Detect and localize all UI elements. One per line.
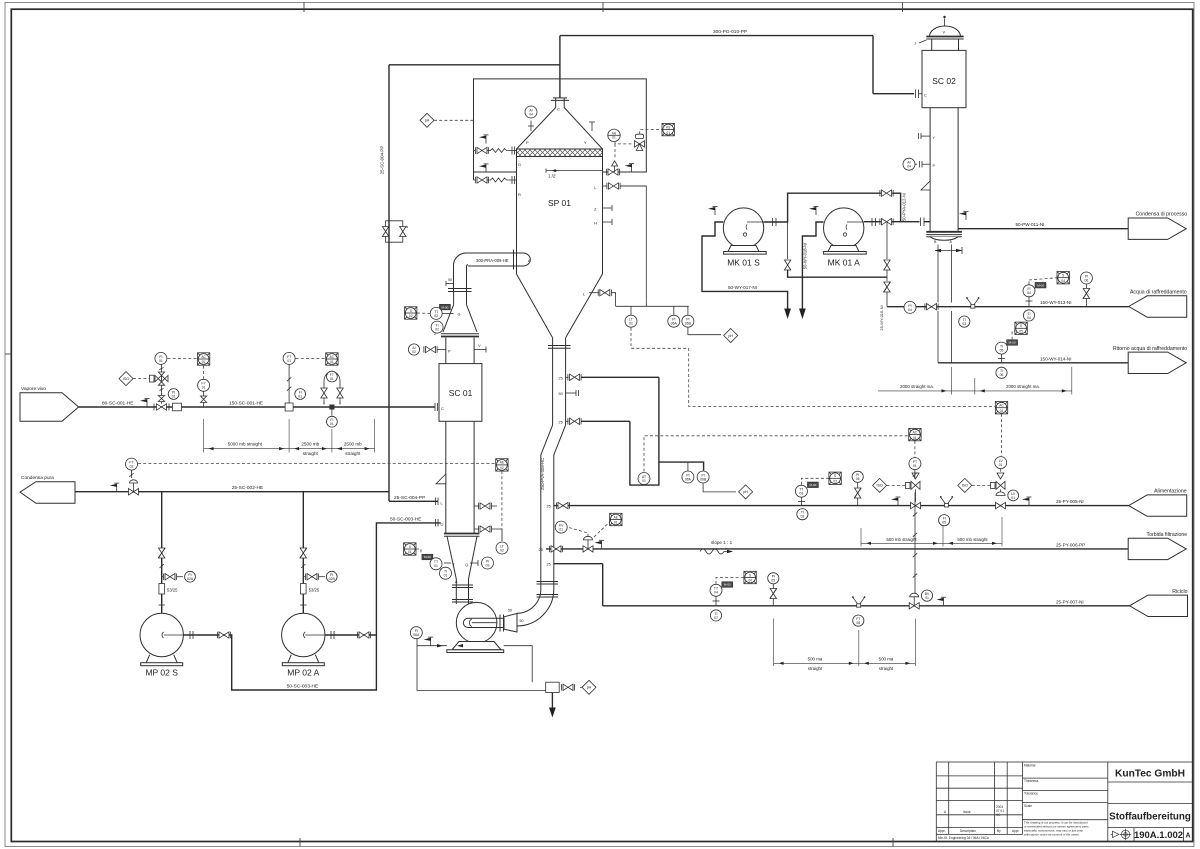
SC01 column lower shell [445,421,447,533]
SC01 flange [441,334,479,337]
svg-text:M-00: M-00 [1037,283,1044,287]
pump discharge tube [463,618,504,627]
svg-text:Condensa pura: Condensa pura [21,475,54,481]
pH diamond drain [582,680,596,694]
drain pot [546,682,560,692]
vent SC02 outlet [959,211,969,220]
svg-text:500 ma: 500 ma [808,657,823,662]
pump shaft mark [469,619,497,627]
vessel SP01 bottom cone [517,274,553,338]
svg-text:Appr.: Appr. [1012,829,1020,833]
svg-text:Vapore vivo: Vapore vivo [21,386,46,392]
svg-text:P: P [526,140,529,145]
svg-text:KS: KS [666,125,670,129]
svg-text:2000 straight ma.: 2000 straight ma. [1006,384,1040,389]
control valve riciclo [909,593,919,609]
inlet flag Vapore vivo [20,393,79,421]
svg-text:01: 01 [913,464,917,468]
instrument LT 01 [625,315,637,327]
svg-text:50-SC-003-HE: 50-SC-003-HE [390,516,421,522]
instrument AT 01 [638,473,650,485]
elbow pipe to SC01 riser [454,253,469,292]
SP01 right side level lines [620,186,646,300]
svg-text:MP 02 A: MP 02 A [287,668,319,678]
svg-text:SC 02: SC 02 [932,76,956,86]
svg-text:S: S [1062,274,1064,278]
valve L1 right [478,503,491,509]
svg-text:P: P [448,349,451,354]
SC01 cone nozzles T Q [444,562,451,564]
SP01 G nozzle line with flex [485,149,517,153]
svg-text:53/25: 53/25 [309,588,320,593]
branch riciclo takeoff [554,563,603,565]
instrument FY 01 [198,379,210,391]
svg-text:25: 25 [547,505,551,509]
dimension set vapore [204,419,375,453]
SC02 top flange [926,37,963,40]
svg-text:50: 50 [520,619,524,623]
svg-text:V: V [478,343,481,348]
dimension 2000 straight [878,367,1072,395]
svg-text:05: 05 [771,579,775,583]
svg-text:02: 02 [434,314,438,318]
inlet flag Acqua di raffreddamento [1129,296,1187,317]
svg-text:06B: 06B [700,477,707,481]
valve cone L [598,290,611,296]
instrument TI 03 [797,509,808,520]
panel instrument AE 01 [610,513,622,525]
outlet flag Ritorno acqua di raffreddamento [1128,352,1186,373]
valve crossover a [784,260,790,270]
svg-text:AC: AC [201,355,206,359]
svg-text:01: 01 [629,322,633,326]
valve branch 25 lower [568,418,581,424]
discharge expander [504,614,517,633]
svg-text:01: 01 [172,394,176,398]
svg-text:04: 04 [748,579,752,583]
signal dashed to AC01 right [994,406,996,408]
SP01 nozzle Y tick [591,122,593,131]
vent X line [625,163,635,172]
svg-text:straight: straight [345,451,361,456]
svg-text:300-PRA-009-HE: 300-PRA-009-HE [476,258,509,263]
svg-text:M-00: M-00 [1009,341,1016,345]
panel instrument AC 01 [197,353,209,365]
svg-text:pH: pH [743,490,748,494]
instrument BV 01 [921,590,932,601]
svg-text:2500 mb: 2500 mb [344,441,362,446]
panel instrument AC 01 [995,402,1007,414]
signal slashes [287,377,291,390]
SC02 Y nozzle [921,135,930,137]
svg-text:25-WY-015-NI: 25-WY-015-NI [879,305,884,330]
svg-text:straight: straight [303,451,319,456]
pH diamond lower [739,485,753,499]
SP01 L nozzle valve right [603,185,608,187]
svg-text:5000 mb straight: 5000 mb straight [228,441,263,446]
instrument FT 02 [126,458,138,470]
svg-text:01: 01 [1000,409,1004,413]
svg-text:Y: Y [584,140,587,145]
inlet flag Riciclo [1130,595,1188,616]
svg-text:02: 02 [435,328,439,332]
svg-text:S: S [749,573,751,577]
svg-text:Tolerance: Tolerance [1024,792,1038,796]
svg-text:150-WY-014-NI: 150-WY-014-NI [1040,356,1072,361]
svg-text:01: 01 [444,574,448,578]
50 stub on riser [446,283,454,285]
instrument KV 01 [555,521,567,533]
valve L [607,183,620,189]
svg-text:01: 01 [666,131,670,135]
panel instrument S 01 [404,543,416,555]
instrument PI 06A [682,471,694,483]
svg-text:straight: straight [808,666,823,671]
valve MP02A discharge [357,632,370,638]
svg-text:01: 01 [330,360,334,364]
svg-text:03: 03 [962,322,966,326]
panel instrument S 05 [1015,322,1027,334]
SC01 neck [445,338,447,364]
valve MK01S discharge header [880,190,893,196]
panel instrument AC 01 [326,353,338,365]
svg-text:AE: AE [614,515,618,519]
package box SP01 [474,79,647,180]
SC02 neck [931,39,933,50]
SP01 top right solenoid valve cluster [608,129,620,141]
check valve acqua branch [1083,289,1090,299]
svg-text:Riciclo: Riciclo [1172,589,1187,595]
valve tap A [305,574,318,580]
blower MK 01 S [723,208,766,254]
instrument AI 04 SP01 [525,106,537,118]
signal dashed LT01 chain [631,328,995,407]
SC01 bottom flange [444,534,480,537]
svg-text:01: 01 [559,528,563,532]
SC02 dished bottom [930,237,958,241]
instrument PI 06 [852,471,863,482]
valve MK01A discharge [880,219,893,225]
instrument LV 01 [995,457,1007,469]
valve torbida takeoff [549,546,562,552]
svg-text:01: 01 [913,436,917,440]
svg-text:25-PY-006-PP: 25-PY-006-PP [1056,542,1085,547]
svg-text:04: 04 [1027,316,1031,320]
svg-text:O: O [441,523,444,527]
relief valve on X line [612,161,618,166]
vent left of PT01 [891,497,901,506]
svg-text:Issue: Issue [963,810,971,814]
M-00 box [422,554,433,560]
instrument PI 06 [1080,272,1092,284]
pH probe diamond SP01 [420,113,434,127]
svg-text:05: 05 [1019,330,1023,334]
leg instrument taps [162,576,163,578]
drain arrow down [551,693,553,710]
check valve to WY015 [884,282,891,292]
level instrument bracket [616,305,689,307]
svg-text:02A: 02A [187,577,194,581]
svg-text:Condensa di processo: Condensa di processo [1136,212,1188,218]
panel instrument S 03 [829,472,841,484]
dimension 500 alimentazione [861,517,1002,547]
svg-text:MP 02 S: MP 02 S [145,668,178,678]
flange on riser [448,289,472,292]
silencer [173,403,182,411]
svg-text:Min.St. Engineering 04 / 06A /: Min.St. Engineering 04 / 06A / 06Ca [938,836,989,840]
panel instrument AE 02 [496,459,508,471]
svg-text:01: 01 [287,359,291,363]
svg-text:04: 04 [908,308,912,312]
svg-text:S: S [409,545,411,549]
instrument TI 06 [996,367,1007,378]
svg-text:25: 25 [559,420,563,424]
SC02 lower tube [929,108,931,232]
pH diamond upper [724,329,738,343]
SC02 bottom flange [926,232,962,237]
SP01 inlet nozzle A capsule 300-PRA-009-HE [466,253,530,266]
svg-text:C: C [557,107,560,112]
svg-text:pH: pH [587,686,592,690]
svg-text:KC: KC [996,813,1001,817]
svg-text:G: G [458,313,461,317]
svg-text:02B: 02B [329,577,336,581]
check valve MP02A leg [300,548,307,558]
svg-text:S: S [410,309,412,313]
vent G line [479,135,489,144]
svg-text:AC: AC [999,404,1004,408]
instrument LT 02 [496,542,508,554]
svg-text:01: 01 [298,394,302,398]
svg-text:06: 06 [1000,373,1004,377]
vessel SP01 top cone and neck [517,98,603,149]
svg-text:straight: straight [879,666,894,671]
sample cooler loop lines [659,377,704,470]
svg-text:Material: Material [1024,764,1036,768]
svg-text:M-00: M-00 [809,483,816,487]
valve bypass b [337,388,343,398]
svg-text:06: 06 [1085,278,1089,282]
SC01 bottom pipe to pump [455,579,457,604]
SC02 C nozzle [916,90,919,99]
svg-text:MK 01 S: MK 01 S [727,258,760,268]
bypass valve b [400,227,406,237]
svg-text:Thickness: Thickness [1024,779,1039,783]
svg-text:06B: 06B [685,322,692,326]
valve crossover b [884,260,890,270]
instrument PI 06B [682,315,694,327]
pump MP 02 S [140,613,183,665]
pipe SP01 vent header 300-PG-010-PP [559,36,561,98]
branch 25 upper [566,376,569,378]
condensa control valve [129,480,139,495]
svg-text:pH: pH [728,334,733,338]
svg-text:01: 01 [330,422,334,426]
signal dashed AT01 chain [644,436,909,472]
valve bypass a [321,388,327,398]
ISO diamond PT01 [873,478,887,492]
instrument FT 08 [853,615,864,626]
M-00 box [439,304,450,310]
instrument TI 05 [996,342,1008,354]
svg-text:Ritorno acqua di raffreddament: Ritorno acqua di raffreddamento [1113,346,1187,352]
svg-text:01: 01 [202,386,206,390]
SC01 C nozzle flange [435,403,438,411]
svg-text:01: 01 [612,136,616,140]
pipe 150-WY-013-NI acqua di raffreddamento [887,306,1128,308]
svg-text:01: 01 [614,521,618,525]
dimension 500 riciclo [774,619,916,667]
orifice flange FT01 [285,403,293,411]
FI04 orifice station [1028,297,1030,307]
inlet flag Alimentazione [1129,495,1187,516]
svg-text:25: 25 [539,548,543,552]
pipe Vapore vivo 80-SC-001-HE [79,406,435,408]
svg-text:300-PG-010-PP: 300-PG-010-PP [713,29,747,35]
valve branch 25 upper [568,374,581,380]
instrument AI 04 [903,158,915,170]
svg-text:50: 50 [448,278,452,282]
valve acqua [925,304,938,310]
SC01 neck nozzles P V [438,349,446,351]
svg-text:08: 08 [856,621,860,625]
svg-text:Description: Description [960,829,976,833]
SP01 Z H stubs [603,207,613,209]
vent condensa line [110,483,120,492]
svg-text:05: 05 [942,521,946,525]
svg-text:02: 02 [500,466,504,470]
svg-text:z: z [915,42,917,46]
svg-text:53/25: 53/25 [167,588,178,593]
panel instrument AC 01 [909,428,921,440]
flow bypass loop [324,372,340,405]
svg-text:01: 01 [434,564,438,568]
instrument TT 02 [430,307,442,319]
svg-text:AC: AC [913,430,918,434]
svg-text:L: L [441,502,443,506]
column SC02 dome head [930,26,961,37]
svg-text:Appr.: Appr. [938,829,946,833]
svg-text:ISO: ISO [962,484,968,488]
svg-text:500 ma: 500 ma [879,657,894,662]
MK crossover valves [787,222,789,259]
instrument TI 03 [959,316,970,327]
svg-text:C: C [441,406,444,411]
discharge fittings [190,631,193,639]
signal slashes [160,564,164,568]
svg-text:a: a [406,225,408,229]
pH line from bracket [688,328,721,335]
three way valve with actuator [635,134,645,150]
signal slashes [913,512,917,577]
svg-text:50-PYA-012-NI: 50-PYA-012-NI [902,193,907,221]
svg-text:02: 02 [409,314,413,318]
SP01 spray nozzle P with instrument [530,121,532,132]
svg-text:R: R [518,192,521,197]
Y strainer alimentazione [940,496,953,507]
svg-text:01: 01 [408,550,412,554]
svg-text:01: 01 [642,479,646,483]
vent MK01S [708,206,718,215]
vent torbida [595,540,605,549]
SC02 z nozzle [919,40,926,43]
signal slashes [301,564,305,568]
self actuated reducing valve [150,365,169,402]
bypass valve a [382,227,388,237]
svg-text:500 mb straight: 500 mb straight [886,537,917,542]
signal slashes [913,473,917,477]
instrument FI 01 [327,416,338,427]
M-00 box [722,582,733,588]
svg-text:2500 mb: 2500 mb [301,441,319,446]
angle valve LV01 [996,492,1005,496]
title block small labels [938,764,1039,841]
svg-text:250-PVA-008-HC: 250-PVA-008-HC [540,458,545,490]
check valve alim [854,488,861,498]
svg-text:AE: AE [500,461,504,465]
svg-text:04: 04 [907,165,911,169]
SC01 L O nozzles left [436,498,439,527]
svg-text:Alimentazione: Alimentazione [1154,489,1187,495]
svg-text:By: By [997,829,1001,833]
svg-text:25-SC-002-HE: 25-SC-002-HE [232,485,263,491]
instrument FI 05 [939,515,950,526]
pipe pump suction legs [161,492,163,614]
control valve torbida [583,536,593,552]
instrument FT 01 [327,371,338,382]
control valve PCV vapore [157,404,167,410]
branch 50 stub [566,392,576,394]
pipe Condensa pura 25-SC-002-HE [75,491,389,493]
pump MP 02 A [282,613,325,665]
SP01 X drain valve right [603,171,608,173]
svg-text:Acqua di raffreddamento: Acqua di raffreddamento [1130,290,1187,296]
vent vapore line [140,398,150,407]
svg-text:Torbida filtrazione: Torbida filtrazione [1147,532,1188,538]
instrument FT 01 [283,352,295,364]
svg-text:01: 01 [202,360,206,364]
M-00 box [1035,282,1046,288]
vent LV01 [1022,497,1032,506]
svg-text:M-00: M-00 [724,583,731,587]
vent R line [479,164,489,173]
SC02 P nozzle with AI04 [922,163,930,165]
svg-text:25-SC-004-PP: 25-SC-004-PP [394,495,425,501]
instrument AI 02 [408,344,419,355]
svg-text:S: S [834,474,836,478]
outlet flag Condensa pura [20,482,75,504]
svg-text:25: 25 [559,376,563,380]
SC01 main body [439,364,482,422]
svg-text:withoutprior notice as consent: withoutprior notice as consent of the ow… [1024,833,1080,837]
instrument TI 01 [440,567,452,579]
svg-text:04: 04 [714,591,718,595]
svg-text:01: 01 [999,463,1003,467]
svg-text:150-WY-013-NI: 150-WY-013-NI [1040,300,1072,305]
pump base [452,642,501,650]
svg-text:slope 1 : 1: slope 1 : 1 [711,540,733,545]
check valve riciclo [770,589,777,599]
downcomer flanges lower [537,582,559,598]
svg-text:H: H [594,221,597,226]
SC02 bottom nozzle drops [937,245,939,303]
svg-text:25-PY-007-NI: 25-PY-007-NI [1056,599,1084,604]
vessel SP01 shell [516,157,518,275]
svg-text:50: 50 [559,392,563,396]
pipe 25-PY-005-NI alimentazione [554,505,1129,507]
ISO diamond vapore [119,372,133,386]
svg-text:ISO: ISO [876,484,882,488]
